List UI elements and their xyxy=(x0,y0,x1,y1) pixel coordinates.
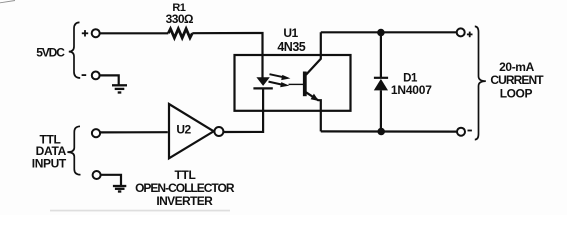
label 5VDC xyxy=(36,46,65,60)
label - (loop) xyxy=(468,130,472,132)
label 4N35 xyxy=(277,40,305,54)
terminal (TTL data in) xyxy=(92,129,100,137)
wire: TTL input to U2 xyxy=(100,131,168,133)
wire: terminal to ground (TTL) xyxy=(101,175,121,186)
ground (5VDC return) xyxy=(112,85,127,92)
brace (TTL data input) xyxy=(67,126,80,174)
light arrow (upper) xyxy=(270,74,291,80)
svg-text:330Ω: 330Ω xyxy=(166,12,194,26)
inverter U2 triangle xyxy=(169,104,214,158)
svg-text:OPEN-COLLECTOR: OPEN-COLLECTOR xyxy=(135,181,235,195)
terminal - (5VDC) xyxy=(92,72,100,80)
value 1N4007 xyxy=(391,83,432,97)
brace (5VDC source) xyxy=(69,22,80,78)
diode D1 (cathode bar up, anode triangle below) xyxy=(374,33,388,132)
label U2 xyxy=(176,122,191,136)
svg-text:4N35: 4N35 xyxy=(277,40,305,54)
label LOOP xyxy=(500,86,533,100)
brace (current loop) xyxy=(475,26,486,139)
label OPEN-COLLECTOR xyxy=(135,181,235,195)
label + (loop) xyxy=(467,32,473,38)
optocoupler U1 package outline xyxy=(235,55,351,111)
svg-text:U2: U2 xyxy=(176,122,191,136)
phototransistor collector lead xyxy=(306,32,321,75)
svg-text:1N4007: 1N4007 xyxy=(391,83,432,97)
label DATA xyxy=(36,144,67,158)
svg-text:TTL: TTL xyxy=(174,168,195,182)
svg-text:CURRENT: CURRENT xyxy=(490,73,544,87)
terminal + (current loop) xyxy=(457,28,465,36)
ground (TTL input) xyxy=(113,186,126,192)
light arrow (lower, with tie to base) xyxy=(269,82,304,88)
label R1 xyxy=(172,2,185,14)
terminal (TTL input ground) xyxy=(93,171,101,179)
value 330 ohm xyxy=(166,12,194,26)
wire: U2 output to LED cathode xyxy=(223,88,263,132)
label CURRENT xyxy=(490,73,544,87)
resistor R1 xyxy=(168,29,192,38)
label TTL (input) xyxy=(39,132,60,146)
junction dot (bottom of D1) xyxy=(377,128,385,136)
inverter output bubble xyxy=(214,127,223,136)
svg-text:LOOP: LOOP xyxy=(500,86,533,100)
phototransistor base bar (U1) xyxy=(303,72,307,97)
label D1 xyxy=(403,72,418,84)
wire: R1 to LED anode (corner at x=262.5) xyxy=(192,33,262,78)
junction dot (top of D1) xyxy=(377,29,385,37)
label - (5VDC) xyxy=(82,74,87,76)
label INVERTER xyxy=(156,194,213,208)
svg-text:INPUT: INPUT xyxy=(32,157,67,171)
scan artifact top-left xyxy=(0,1,15,3)
svg-text:U1: U1 xyxy=(283,26,298,40)
label + (5VDC) xyxy=(82,30,88,36)
label 20-mA xyxy=(499,60,534,74)
phototransistor emitter lead with arrow xyxy=(306,92,321,131)
wire: -5V terminal to ground xyxy=(100,75,119,84)
svg-text:INVERTER: INVERTER xyxy=(156,194,213,208)
terminal - (current loop) xyxy=(457,128,465,136)
wire: collector rail to + loop terminal xyxy=(321,31,457,33)
terminal + (5VDC) xyxy=(92,29,100,37)
label INPUT xyxy=(32,157,67,171)
label U1 xyxy=(283,26,298,40)
wire: emitter rail to - loop terminal xyxy=(321,130,457,132)
LED inside U1 (anode triangle + cathode bar) xyxy=(253,77,272,88)
svg-text:5VDC: 5VDC xyxy=(36,46,65,60)
scan streak bottom xyxy=(50,210,230,212)
wire: +5V terminal to R1 xyxy=(100,32,169,34)
label TTL (inverter caption) xyxy=(174,168,195,182)
